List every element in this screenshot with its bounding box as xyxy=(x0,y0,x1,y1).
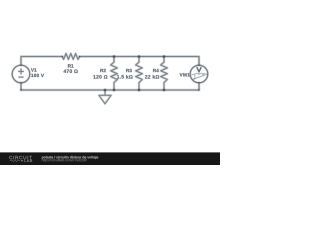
voltmeter VM1 (circle body) xyxy=(190,65,208,83)
watermark title text xyxy=(42,156,98,159)
label R3 xyxy=(126,69,132,72)
wire: left branch V1 bottom to bottom net xyxy=(20,83,23,90)
voltage source V1 (circle body) xyxy=(12,65,30,83)
junction dot ground node xyxy=(103,88,107,92)
junction dot top of R4 xyxy=(162,55,166,59)
label R1 xyxy=(68,64,74,67)
value label 22 kOhm xyxy=(145,75,159,79)
label VM1 xyxy=(180,73,190,76)
ground symbol xyxy=(99,90,111,104)
junction dot bottom of R4 xyxy=(162,88,166,92)
label V1 xyxy=(31,68,37,71)
wire: top-left segment from V1 top to R1 left lead xyxy=(21,57,62,66)
value label 120 Ohm xyxy=(93,75,107,78)
CircuitLab logo zigzag xyxy=(10,160,21,162)
watermark bar xyxy=(0,151,220,154)
CircuitLab logo diamond xyxy=(21,160,23,162)
V1 minus sign xyxy=(18,76,23,78)
resistor R2 body (120 Ohm, vertical zigzag) xyxy=(111,57,118,91)
wire: bottom net from V1 to VM1 xyxy=(21,89,199,92)
wire: top net from R1 right lead to VM1 top xyxy=(80,57,199,66)
wire: right branch VM1 bottom to bottom net xyxy=(198,83,201,90)
VM1 meter pivot arc xyxy=(193,76,195,80)
VM1 V letter xyxy=(197,67,201,72)
resistor R3 body (1.5 kOhm, vertical zigzag) xyxy=(136,57,143,91)
junction dot top of R2 xyxy=(112,55,116,59)
resistor R4 body (22 kOhm, vertical zigzag) xyxy=(161,57,168,91)
CircuitLab logo text CIRCUIT xyxy=(9,156,32,159)
value label 470 Ohm xyxy=(64,69,78,72)
value label 1.5 kOhm xyxy=(117,75,133,79)
label R2 xyxy=(100,69,106,72)
junction dot top of R3 xyxy=(137,55,141,59)
V1 plus sign xyxy=(18,68,24,74)
CircuitLab logo text LAB xyxy=(25,159,33,162)
resistor R1 body (470 Ohm, horizontal zigzag) xyxy=(62,54,79,60)
watermark url text xyxy=(42,159,87,162)
junction dot bottom of R2 xyxy=(112,88,116,92)
label R4 xyxy=(153,69,159,72)
value label 100 V xyxy=(31,74,44,77)
junction dot bottom of R3 xyxy=(137,88,141,92)
VM1 meter scale arc xyxy=(192,73,208,75)
VM1 meter ticks xyxy=(195,74,203,76)
VM1 needle xyxy=(193,75,205,80)
